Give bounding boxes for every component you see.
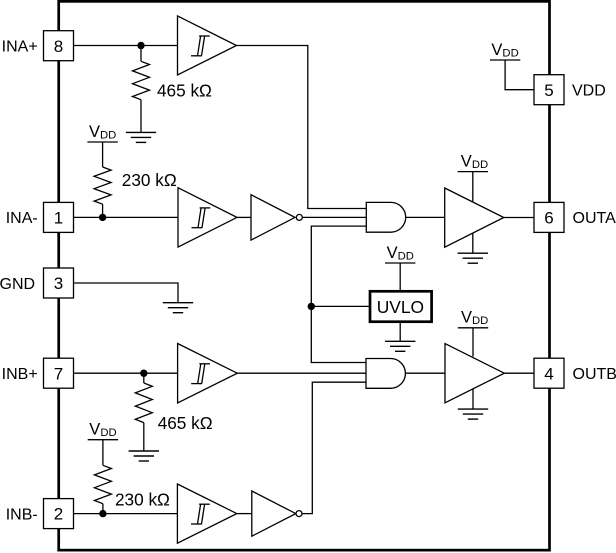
wire driver B to ground [472, 389, 474, 409]
ground under R3 [129, 451, 159, 461]
wire schmitt A output to AND A top input [237, 46, 367, 209]
wire UVLO net AND A bottom to AND B top [311, 226, 366, 362]
schmitt trigger buffer C [178, 344, 238, 403]
AND gate B [366, 359, 405, 389]
wire schmitt D output to inverter D [237, 513, 252, 515]
junction node INB+ tap [140, 370, 147, 377]
svg-text:4: 4 [544, 364, 553, 383]
output driver B [445, 344, 504, 403]
VDD symbol above R2 [87, 123, 117, 167]
svg-text:INA+: INA+ [2, 38, 38, 55]
junction node UVLO tap [308, 303, 315, 310]
UVLO block U5 [370, 291, 432, 321]
wire pin8 to schmitt A input [74, 45, 178, 47]
svg-text:2: 2 [54, 505, 63, 524]
wire R1 to ground [140, 100, 142, 133]
wire pin1 to schmitt B input [74, 216, 179, 218]
svg-text:VDD: VDD [89, 123, 116, 142]
pin 5 box [534, 75, 564, 105]
wire driver A to ground [472, 233, 474, 253]
VDD symbol above UVLO [385, 244, 415, 292]
pin 8 box [44, 31, 74, 61]
wire AND B output to driver B [405, 372, 445, 374]
svg-text:1: 1 [54, 209, 63, 228]
svg-text:230 kΩ: 230 kΩ [115, 490, 170, 510]
pin 3 box [44, 268, 74, 298]
VDD symbol above driver B [458, 309, 489, 357]
wire UVLO to ground [399, 322, 401, 342]
inverter A [251, 195, 295, 240]
resistor R3 465k B zigzag [135, 383, 152, 423]
pin 7 box [44, 358, 74, 388]
wire pin2 to schmitt D input [74, 513, 178, 515]
svg-text:INB-: INB- [6, 506, 38, 523]
wire driver A output to pin6 [504, 217, 534, 219]
inverter D bubble [296, 511, 302, 517]
svg-text:OUTB: OUTB [573, 366, 616, 383]
ground at pin3 [163, 303, 193, 313]
wire driver B output to pin4 [504, 372, 534, 374]
svg-text:VDD: VDD [387, 244, 414, 263]
svg-text:230 kΩ: 230 kΩ [122, 170, 177, 190]
VDD symbol above driver A [458, 152, 489, 203]
svg-text:VDD: VDD [572, 83, 606, 100]
svg-text:8: 8 [54, 37, 63, 56]
svg-text:INA-: INA- [6, 210, 38, 227]
svg-text:VDD: VDD [461, 309, 488, 328]
pin 6 box [534, 202, 564, 232]
wire pin7 to schmitt C input [74, 372, 178, 374]
svg-text:5: 5 [544, 81, 553, 100]
svg-text:GND: GND [0, 276, 35, 293]
ground under UVLO [385, 341, 415, 351]
wire UVLO stub [311, 305, 370, 307]
svg-text:465 kΩ: 465 kΩ [157, 81, 212, 101]
pin 4 box [534, 358, 564, 388]
wire node INB+ to resistor R3 [143, 373, 145, 383]
schmitt trigger buffer A [178, 16, 237, 75]
svg-text:7: 7 [54, 364, 63, 383]
junction node INB- tap [99, 510, 106, 517]
pin 2 box [44, 499, 74, 529]
resistor R1 465k A zigzag [133, 61, 150, 99]
svg-text:OUTA: OUTA [573, 210, 616, 227]
VDD symbol above R4 [88, 421, 118, 466]
svg-text:VDD: VDD [89, 421, 116, 440]
AND gate A [366, 202, 405, 232]
svg-text:465 kΩ: 465 kΩ [158, 413, 213, 433]
junction node INA- tap [99, 214, 106, 221]
wire inverter D output to AND B bottom input [302, 382, 366, 513]
ground under driver A [458, 253, 488, 263]
ground under driver B [458, 409, 488, 419]
junction node INA+ tap [137, 42, 144, 49]
output driver A [445, 188, 504, 247]
svg-text:VDD: VDD [461, 152, 488, 171]
IC body border [59, 1, 550, 550]
wire node INA+ to resistor R1 [140, 46, 142, 62]
wire R4 to node INB- [102, 504, 104, 514]
pin 1 box [44, 202, 74, 232]
resistor R2 230k A zigzag [94, 167, 111, 204]
schmitt trigger buffer B [178, 188, 237, 247]
wire R3 to ground [143, 423, 145, 451]
resistor R4 230k B zigzag [94, 465, 111, 503]
svg-text:3: 3 [54, 274, 63, 293]
wire schmitt B output to inverter A [237, 216, 251, 218]
VDD symbol supply pin5 [490, 41, 534, 90]
inverter D [252, 491, 296, 536]
wire inverter A output to AND A middle input [302, 216, 366, 218]
wire AND A output to driver A [406, 216, 445, 218]
svg-text:UVLO: UVLO [377, 297, 424, 317]
svg-text:6: 6 [544, 209, 553, 228]
inverter A bubble [296, 214, 302, 220]
svg-text:INB+: INB+ [2, 366, 38, 383]
ground under R1 [126, 132, 156, 142]
wire schmitt C output to AND B middle input [237, 372, 366, 374]
schmitt trigger buffer D [177, 484, 236, 543]
svg-text:VDD: VDD [491, 41, 518, 60]
wire R2 to node INA- [102, 204, 104, 217]
wire GND pin3 to ground [74, 283, 179, 303]
